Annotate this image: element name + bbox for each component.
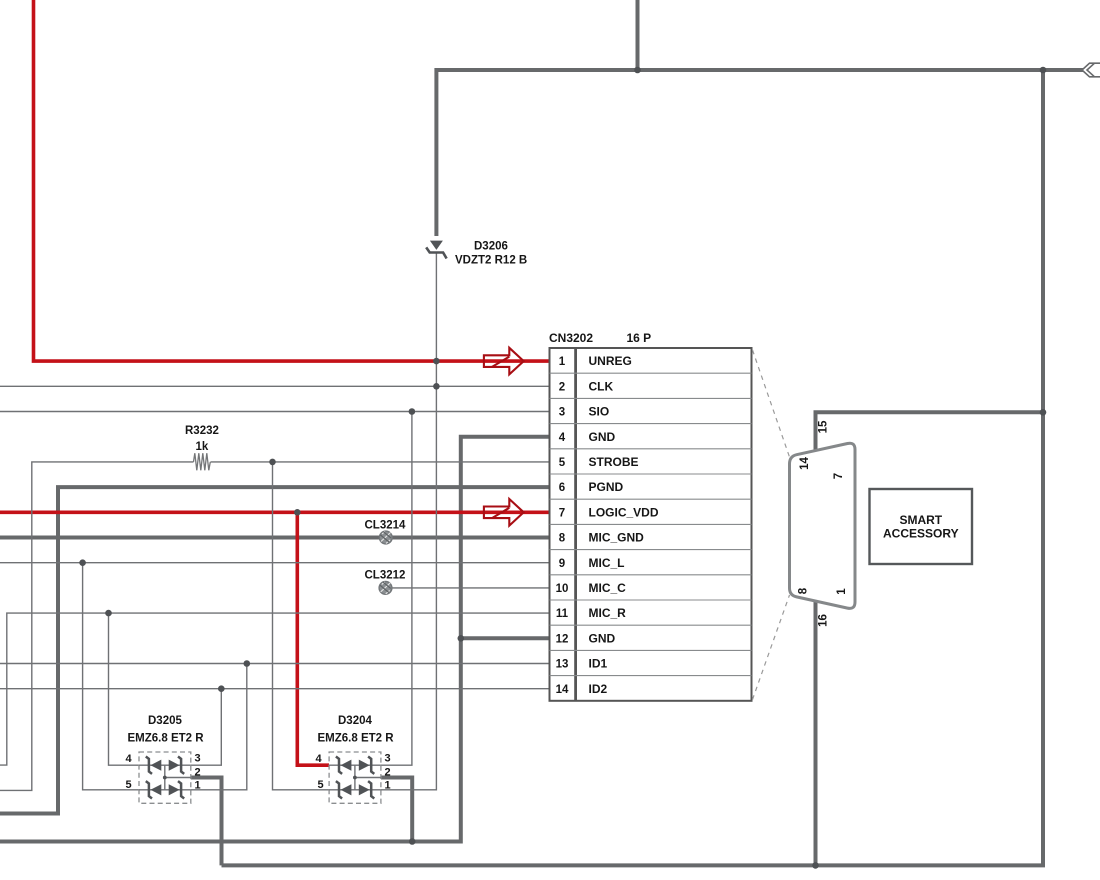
node: D3204 pin2 on GND rail <box>409 838 416 845</box>
svg-text:1: 1 <box>836 588 848 595</box>
node: ID1 branch <box>244 660 251 667</box>
svg-text:1: 1 <box>194 780 200 792</box>
wire: red LOGIC_VDD row to pin 7 <box>0 510 550 514</box>
svg-text:7: 7 <box>559 507 565 519</box>
node: GND pin12 junction <box>458 635 465 642</box>
svg-text:SIO: SIO <box>589 405 610 419</box>
svg-text:R3232: R3232 <box>185 425 219 437</box>
svg-text:8: 8 <box>798 587 810 594</box>
svg-text:LOGIC_VDD: LOGIC_VDD <box>589 505 659 519</box>
node: rail x1043 junction <box>1040 67 1047 74</box>
wire: ID1 branch to D3205 pin 1 <box>191 664 247 790</box>
node: ID2 branch <box>218 685 225 692</box>
wire: drop from rail to diode D3206 anode <box>434 68 438 236</box>
svg-text:GND: GND <box>589 430 616 444</box>
diode array D3205 <box>139 752 191 803</box>
bead CL3212 <box>379 582 392 595</box>
smart accessory block <box>870 489 973 564</box>
wire: red UNREG from top-left to pin 1 <box>34 0 550 361</box>
svg-text:3: 3 <box>194 753 200 765</box>
svg-text:D3204: D3204 <box>338 715 372 727</box>
svg-text:ID2: ID2 <box>589 682 608 696</box>
svg-text:5: 5 <box>559 457 566 469</box>
svg-text:10: 10 <box>556 583 569 595</box>
svg-text:STROBE: STROBE <box>589 455 639 469</box>
off-page connector symbol <box>1082 63 1100 77</box>
svg-text:11: 11 <box>556 608 569 620</box>
wire: PGND pin6 left, down, exit left <box>0 487 550 813</box>
svg-text:SMART: SMART <box>899 513 942 527</box>
svg-text:9: 9 <box>559 558 565 570</box>
svg-text:2: 2 <box>194 767 200 779</box>
node: SIO branch <box>409 408 416 415</box>
svg-text:4: 4 <box>315 753 322 765</box>
wire: MIC_R branch to D3205 pin 4 <box>109 613 140 765</box>
bead CL3214 <box>379 531 392 544</box>
node: MIC_L branch <box>79 559 86 566</box>
svg-text:3: 3 <box>559 407 565 419</box>
wire: top horizontal rail y=70 <box>436 68 1083 72</box>
svg-text:4: 4 <box>125 753 132 765</box>
svg-text:MIC_GND: MIC_GND <box>589 531 645 545</box>
dashed line bottom <box>753 595 790 700</box>
svg-text:6: 6 <box>559 482 565 494</box>
svg-text:7: 7 <box>833 473 845 479</box>
svg-text:16 P: 16 P <box>627 331 652 345</box>
wire: MIC_GND pin8 row <box>0 536 550 540</box>
svg-text:5: 5 <box>125 779 131 791</box>
wire: ID2 row 14 <box>0 688 550 690</box>
wire: top vertical entering from top edge <box>636 0 640 70</box>
svg-text:MIC_C: MIC_C <box>589 581 627 595</box>
connector CN3202 row separators <box>550 373 752 675</box>
connector shell (trapezoid) <box>790 443 856 608</box>
svg-text:D3206: D3206 <box>474 241 508 253</box>
svg-text:5: 5 <box>317 779 323 791</box>
svg-text:CL3214: CL3214 <box>365 520 407 532</box>
svg-text:4: 4 <box>559 432 566 444</box>
connector pin names <box>589 354 659 696</box>
diode array D3205 pin numbers <box>125 753 200 792</box>
arrow into pin 7 <box>484 499 524 526</box>
wire: MIC_C row 10 from CL3212 <box>386 587 550 589</box>
svg-text:3: 3 <box>384 753 390 765</box>
svg-text:2: 2 <box>384 767 390 779</box>
wire: SIO branch to D3204 pin 3 <box>381 412 412 766</box>
wire: GND pin12 stub <box>461 636 550 640</box>
svg-text:ID1: ID1 <box>589 657 608 671</box>
wire: ID2 branch to D3205 pin 3 <box>191 689 222 766</box>
wire: MIC_L row 9 <box>0 562 550 564</box>
node: diode line on CLK <box>433 383 440 390</box>
wire: ID1 row 13 <box>0 663 550 665</box>
wire: diode cathode down to D3204 pin 1 <box>381 252 436 790</box>
wire: MIC_L branch to D3205 pin 5 <box>83 563 139 790</box>
connector pin numbers <box>556 356 569 696</box>
connector CN3202 box <box>550 348 752 701</box>
svg-text:14: 14 <box>799 457 811 470</box>
svg-text:CLK: CLK <box>589 379 614 393</box>
svg-text:D3205: D3205 <box>148 715 182 727</box>
node: pin15 branch junction <box>1040 409 1047 416</box>
diode D3206 (zener) <box>426 241 446 259</box>
svg-text:8: 8 <box>559 533 566 545</box>
diode array D3204 <box>329 752 381 803</box>
svg-text:2: 2 <box>559 381 565 393</box>
svg-text:16: 16 <box>818 614 830 627</box>
svg-text:PGND: PGND <box>589 480 624 494</box>
svg-text:1: 1 <box>559 356 566 368</box>
wire: CLK row 2 <box>0 385 550 387</box>
node: pin16 on bottom rail <box>812 862 819 869</box>
svg-text:EMZ6.8 ET2 R: EMZ6.8 ET2 R <box>128 733 205 745</box>
node: rail x637 junction <box>634 67 641 74</box>
svg-text:ACCESSORY: ACCESSORY <box>883 527 959 541</box>
wire: connector pin 16 stub down to bottom rail <box>814 601 818 866</box>
svg-text:14: 14 <box>556 684 569 696</box>
svg-text:CN3202: CN3202 <box>549 331 593 345</box>
dashed line top <box>753 350 790 457</box>
svg-text:VDZT2 R12 B: VDZT2 R12 B <box>455 255 527 267</box>
wire: D3205 pin2 to bottom rail <box>191 778 222 866</box>
svg-text:GND: GND <box>589 631 616 645</box>
arrow into pin 1 <box>484 348 524 375</box>
svg-text:1k: 1k <box>196 441 209 453</box>
wire: SIO row 3 <box>0 411 550 413</box>
svg-text:MIC_R: MIC_R <box>589 606 627 620</box>
diode array D3204 pin numbers <box>315 753 390 792</box>
svg-text:13: 13 <box>556 659 569 671</box>
wire: D3204 pin2 down to GND rail <box>381 778 412 842</box>
svg-text:12: 12 <box>556 633 569 645</box>
svg-text:CL3212: CL3212 <box>365 570 406 582</box>
wire: STROBE branch to D3204 pin 5 <box>273 462 330 790</box>
svg-text:1: 1 <box>384 780 390 792</box>
resistor R3232 zigzag <box>194 453 211 470</box>
wire: branch to connector pin 15 <box>816 412 1044 452</box>
svg-text:MIC_L: MIC_L <box>589 556 625 570</box>
node: STROBE branch <box>269 459 276 466</box>
wire: red drop to D3204 pin 4 <box>297 512 329 765</box>
wire: MIC_R row 11 with left exit <box>0 613 550 765</box>
svg-text:UNREG: UNREG <box>589 354 632 368</box>
node: diode on UNREG <box>433 358 440 365</box>
wire: GND net pin4 left and down <box>0 437 550 842</box>
wire: STROBE row 5 with left drop exit <box>0 462 194 791</box>
svg-text:EMZ6.8 ET2 R: EMZ6.8 ET2 R <box>318 733 395 745</box>
node: MIC_R branch <box>105 610 112 617</box>
node: LOGIC_VDD branch <box>294 509 301 516</box>
wire: right vertical rail down and bottom horizontal to D3205 pin2 <box>222 70 1044 865</box>
svg-text:15: 15 <box>818 420 830 433</box>
